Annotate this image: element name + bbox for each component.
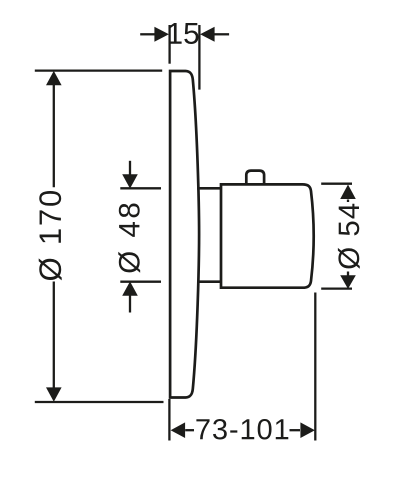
dimension label 15 xyxy=(169,23,199,44)
dimension Ø170: arrowhead top (pointing up) xyxy=(46,71,62,85)
dimension Ø54: extension line top xyxy=(321,183,352,185)
dimension Ø170: dimension line upper segment xyxy=(53,84,55,187)
dimension 15: arrowhead left (pointing right) xyxy=(154,27,169,42)
thermostat knob (Ø54 handle) xyxy=(221,184,314,287)
dimension 73-101: leader line right xyxy=(290,429,301,431)
safety stop button on top of knob xyxy=(246,171,264,184)
dimension 15: leader line right xyxy=(215,33,230,35)
sleeve bottom edge (neck, Ø48) xyxy=(197,280,221,283)
dimension 73-101: extension line right xyxy=(314,293,316,441)
dimension label Ø 48 (rotated) xyxy=(118,204,140,273)
escutcheon plate (side view, Ø170 wall plate) xyxy=(170,71,199,398)
dimension label Ø 54 (rotated) xyxy=(338,204,360,269)
dimension Ø54: arrowhead bottom (pointing down) xyxy=(340,275,356,289)
sleeve top edge (neck, Ø48) xyxy=(197,187,221,190)
dimension Ø48: arrowhead bottom (pointing up) xyxy=(122,281,138,295)
dimension Ø170: arrowhead bottom (pointing down) xyxy=(46,387,62,401)
dimension Ø170: dimension line lower segment xyxy=(53,282,55,389)
dimension Ø48: arrow stem bottom xyxy=(129,296,131,313)
dimension Ø48: arrowhead top (pointing down) xyxy=(122,174,138,188)
dimension 73-101: arrowhead right (pointing right) xyxy=(300,422,315,438)
dimension 15: leader line left xyxy=(140,33,154,35)
dimension Ø48: extension line bottom xyxy=(120,281,161,283)
dimension 15: extension line right xyxy=(198,25,200,90)
dimension label 73-101 xyxy=(196,419,288,440)
dimension Ø170: extension line bottom xyxy=(35,401,164,403)
dimension Ø170: extension line top xyxy=(35,69,162,71)
dimension 15: arrowhead right (pointing left) xyxy=(200,27,215,42)
dimension 73-101: leader line left xyxy=(185,429,194,431)
dimension Ø54: dimension line lower segment xyxy=(347,272,349,277)
dimension Ø54: extension line bottom xyxy=(321,287,352,289)
dimension Ø54: dimension line upper segment xyxy=(347,200,349,203)
dimension label Ø 170 (rotated) xyxy=(39,191,62,280)
dimension 73-101: extension line left xyxy=(168,399,170,441)
dimension Ø54: arrowhead top (pointing up) xyxy=(340,185,356,200)
dimension 15: extension line left xyxy=(168,25,170,64)
dimension 73-101: arrowhead left (pointing left) xyxy=(171,422,186,438)
dimension Ø48: arrow stem top xyxy=(129,161,131,175)
dimension Ø48: extension line top xyxy=(120,187,161,189)
